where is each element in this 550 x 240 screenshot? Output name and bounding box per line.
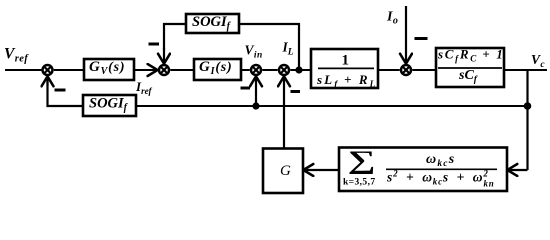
wire SOGI bottom to J1 with arrow bbox=[48, 76, 84, 106]
svg-text:k=3,5,7: k=3,5,7 bbox=[343, 178, 376, 188]
svg-text:GV(s): GV(s) bbox=[89, 59, 125, 77]
svg-text:Iref: Iref bbox=[135, 79, 153, 96]
node N3 junction dot bbox=[524, 102, 532, 110]
block SOGI_f bottom bbox=[83, 95, 136, 116]
summing junction J2 bbox=[159, 65, 169, 75]
svg-text:SOGIf: SOGIf bbox=[192, 14, 232, 32]
wire J1 to GV block bbox=[54, 69, 84, 71]
svg-text:G: G bbox=[280, 163, 291, 179]
summing junction J1 bbox=[43, 65, 53, 75]
summing junction J3 bbox=[251, 65, 261, 75]
wire Vref input to junction 1 bbox=[5, 69, 41, 71]
wire N2 up into J3 with arrow bbox=[255, 76, 257, 106]
wire Vc feedback vertical down bbox=[526, 70, 528, 170]
svg-text:Vc: Vc bbox=[531, 52, 545, 70]
wire L block to junction J5 bbox=[378, 69, 400, 71]
node N1 junction dot bbox=[295, 66, 302, 73]
node Vc label bbox=[531, 52, 545, 70]
node Io label bbox=[386, 10, 398, 27]
svg-text:Vin: Vin bbox=[245, 43, 263, 61]
wire Io input arrow into J5 bbox=[405, 6, 407, 64]
node Vin label bbox=[245, 43, 263, 61]
svg-text:∑: ∑ bbox=[348, 146, 376, 175]
svg-text:sLf + RL: sLf + RL bbox=[316, 72, 377, 89]
wire GI to junction J3 bbox=[241, 69, 250, 71]
summing junction J4 bbox=[279, 65, 289, 75]
node IL label bbox=[282, 40, 294, 58]
svg-text:SOGIf: SOGIf bbox=[89, 96, 129, 114]
wire GV to junction J2 with arrow bbox=[134, 69, 158, 71]
node Vref label bbox=[4, 46, 29, 65]
svg-text:Io: Io bbox=[386, 10, 398, 27]
block (sCfRC+1)/sCf bbox=[436, 47, 504, 88]
svg-text:GI(s): GI(s) bbox=[199, 59, 233, 77]
block GI(s) bbox=[194, 59, 241, 80]
block SOGI_f top bbox=[186, 14, 239, 33]
block GV(s) bbox=[84, 59, 134, 80]
minus sign at J2 feedback bbox=[149, 43, 160, 46]
svg-text:IL: IL bbox=[282, 40, 294, 58]
wire J2 to GI block bbox=[170, 69, 194, 71]
wire J5 to C block bbox=[412, 69, 436, 71]
node N2 junction dot bbox=[252, 102, 259, 109]
wire Vc down to sigma block with arrow bbox=[507, 169, 527, 171]
block sigma harmonic compensator bbox=[339, 146, 507, 191]
wire C block to output Vc bbox=[504, 69, 547, 71]
wire N1 up to top SOGI input bbox=[239, 24, 299, 70]
wire sigma block to G block with arrow bbox=[303, 169, 339, 171]
svg-text:Vref: Vref bbox=[4, 46, 29, 65]
wire J3 to J4 bbox=[262, 69, 277, 71]
minus sign at J4 feedback bbox=[291, 90, 301, 93]
node Iref label bbox=[135, 79, 153, 96]
wire G block up into J4 with arrow bbox=[283, 76, 285, 148]
svg-text:1: 1 bbox=[342, 53, 350, 69]
wire J4 to L block bbox=[290, 69, 311, 71]
wire top SOGI output to J2 with arrow bbox=[164, 24, 186, 50]
minus sign at J3 feedback bbox=[241, 87, 251, 90]
block G bbox=[263, 149, 303, 194]
minus sign at J1 feedback bbox=[55, 89, 66, 92]
block 1/(sLf+RL) bbox=[311, 49, 378, 89]
minus sign at Io bbox=[415, 37, 428, 40]
wire long feedback line to SOGI bottom bbox=[136, 105, 528, 107]
summing junction J5 bbox=[401, 65, 411, 75]
